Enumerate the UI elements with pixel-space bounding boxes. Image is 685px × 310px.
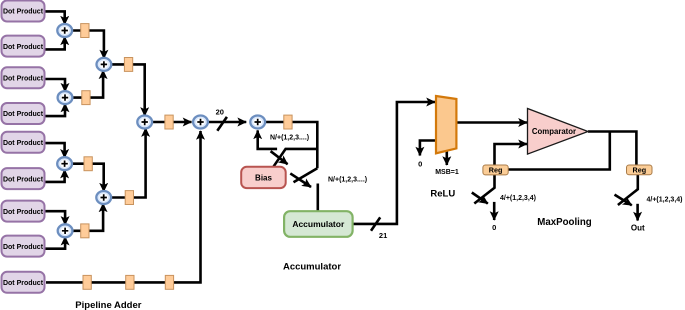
wire comparator output to Reg2 <box>588 132 636 166</box>
wire into accumulator top <box>316 184 319 212</box>
wire U4 to U6 through register R4 <box>73 203 104 230</box>
dot product DP5 <box>2 132 45 153</box>
svg-text:N/+(1,2,3....): N/+(1,2,3....) <box>328 177 367 184</box>
svg-text:Out: Out <box>631 224 645 233</box>
svg-text:Dot Product: Dot Product <box>3 176 44 183</box>
wire U7 to U8 through register R7 <box>152 121 191 124</box>
wire U1 to U5 through register R1 <box>72 31 104 59</box>
adder U7 <box>137 116 152 129</box>
dot product DP3 <box>2 67 45 88</box>
wire U3 to U6 through register R3 <box>72 164 104 192</box>
adder U2 <box>58 91 73 104</box>
dot product DP2 <box>2 36 45 57</box>
register R7 <box>165 115 173 129</box>
wire DP3 to adder U2 <box>45 79 66 92</box>
wire ReLU output to comparator <box>456 121 527 124</box>
dot product DP1 <box>2 1 45 22</box>
svg-text:MSB=1: MSB=1 <box>435 169 459 176</box>
svg-text:0: 0 <box>418 159 422 168</box>
wire DP5 to adder U3 <box>45 143 65 158</box>
svg-text:Dot Product: Dot Product <box>3 76 44 83</box>
svg-text:Pipeline Adder: Pipeline Adder <box>75 300 141 310</box>
register R8 <box>284 115 292 129</box>
wire below Reg2 into switch <box>618 175 638 205</box>
register R3 <box>84 157 92 171</box>
wire U6 to U7 through register R6 <box>111 128 146 197</box>
wire DP6 to adder U3 <box>45 170 65 182</box>
svg-text:21: 21 <box>379 231 387 240</box>
register Reg2 <box>627 165 653 175</box>
dot product DP7 <box>2 201 45 222</box>
wire U2 to U5 through register R2 <box>72 70 103 97</box>
svg-text:Dot Product: Dot Product <box>3 111 44 118</box>
svg-text:N/+(1,2,3....): N/+(1,2,3....) <box>270 135 309 142</box>
adder U6 <box>96 191 111 204</box>
register R2 <box>82 91 90 105</box>
wire DP7 to adder U4 <box>45 211 66 225</box>
dot product DP8 <box>2 236 45 257</box>
svg-text:20: 20 <box>216 108 224 117</box>
accumulator box ACC <box>284 211 353 237</box>
wire Reg1 up to comparator lower input <box>495 144 528 165</box>
wire bias switch output up into U9 <box>258 130 277 149</box>
svg-text:Comparator: Comparator <box>532 127 576 136</box>
register R4 <box>81 224 89 238</box>
ReLU mux <box>436 96 456 153</box>
svg-text:Dot Product: Dot Product <box>3 209 44 216</box>
wire U5 to U7 through register R5 <box>111 64 145 116</box>
wire down arrow to 0 below Reg1 switch <box>493 202 496 220</box>
register R5 <box>124 58 132 72</box>
register R9 on pipeline <box>83 275 91 289</box>
svg-text:Dot Product: Dot Product <box>3 44 44 51</box>
register R6 <box>125 191 133 205</box>
wire DP1 to adder U1 <box>45 11 65 24</box>
bias box <box>241 167 286 188</box>
switch arm arrow at accumulator <box>290 173 311 187</box>
svg-text:Dot Product: Dot Product <box>3 9 44 16</box>
wire accumulator output to ReLU bus of 21 <box>353 102 435 224</box>
svg-text:Accumulator: Accumulator <box>283 262 341 273</box>
dot product DP9 <box>2 272 45 293</box>
bus slash 20 <box>217 117 227 131</box>
svg-text:Reg: Reg <box>489 166 503 175</box>
wire U8 to U9 bus of 20 <box>208 121 246 124</box>
wire DP8 to adder U4 <box>45 237 66 249</box>
adder U5 <box>97 58 112 71</box>
adder U1 <box>57 24 72 37</box>
comparator <box>528 109 589 155</box>
svg-text:Accumulator: Accumulator <box>292 219 345 229</box>
svg-text:Reg: Reg <box>633 166 647 175</box>
svg-text:Dot Product: Dot Product <box>3 140 44 147</box>
wire comparator output feedback to Reg1 <box>508 132 610 170</box>
switch arm arrow below Reg2 <box>615 195 632 206</box>
svg-text:0: 0 <box>492 223 496 232</box>
dot product DP4 <box>2 103 45 124</box>
wire MSB select arrow <box>445 151 448 165</box>
switch arm arrow at bias <box>271 151 288 164</box>
wire switch diagonal into accumulator path <box>294 168 318 182</box>
svg-text:Dot Product: Dot Product <box>3 244 44 251</box>
adder U8 <box>193 116 208 129</box>
wire U9 output to feedback corner through register R8 <box>265 122 317 168</box>
register Reg1 <box>483 165 508 175</box>
svg-text:ReLU: ReLU <box>430 189 455 200</box>
adder U9 <box>250 116 265 129</box>
adder U3 <box>57 157 72 170</box>
wire pipeline DP9 to adder U8 <box>46 131 201 282</box>
svg-text:MaxPooling: MaxPooling <box>537 217 591 228</box>
register R11 on pipeline <box>165 275 173 289</box>
wire down arrow to Out below Reg2 switch <box>636 204 639 221</box>
svg-text:Bias: Bias <box>255 173 272 182</box>
register R10 on pipeline <box>126 275 134 289</box>
svg-text:4/+(1,2,3,4): 4/+(1,2,3,4) <box>647 196 683 203</box>
dot product DP6 <box>2 168 45 189</box>
adder U4 <box>58 224 73 237</box>
wire DP2 to adder U1 <box>45 36 65 49</box>
svg-text:4/+(1,2,3,4): 4/+(1,2,3,4) <box>500 195 536 202</box>
switch arm arrow below Reg1 <box>472 193 488 204</box>
wire ReLU zero branch <box>420 141 436 156</box>
wire below Reg1 into switch <box>474 175 494 204</box>
wire DP4 to adder U2 <box>45 104 66 117</box>
svg-text:Dot Product: Dot Product <box>3 280 44 287</box>
wire feedback branch to Bias top <box>272 149 317 168</box>
register R1 <box>81 24 89 38</box>
bus slash 21 <box>371 217 380 230</box>
